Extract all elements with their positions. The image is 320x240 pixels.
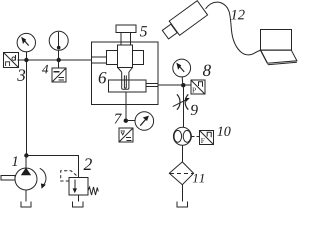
node junction 8: [181, 83, 185, 87]
thermometer (for 4): [49, 31, 68, 68]
laptop: [261, 30, 297, 65]
label 11: [193, 174, 204, 183]
filter 11 diamond: [169, 162, 193, 185]
label 7: [115, 114, 122, 124]
pressure gauge (for 3): [17, 33, 35, 60]
pump 1: [1, 168, 46, 190]
wire down through throttle: [182, 85, 184, 127]
sensor T4 square: [52, 68, 66, 82]
wire pump outlet: [25, 156, 27, 169]
label 12: [231, 10, 245, 20]
relief valve 2 body: [69, 177, 88, 195]
needle inside nozzle: [124, 75, 126, 88]
label 8: [203, 65, 211, 76]
wire internal double line left: [91, 56, 106, 58]
label 9: [191, 105, 198, 115]
tank (right): [177, 202, 187, 207]
node junction 7: [124, 119, 128, 123]
sensor F10 square: [200, 131, 214, 145]
left block: [107, 50, 118, 64]
cable: [206, 2, 261, 55]
label 6: [99, 72, 107, 83]
tank (pump): [21, 201, 31, 206]
adjusting knob 5: [116, 25, 136, 45]
sensor P3 square: [4, 53, 27, 68]
flow meter (for 10): [173, 127, 191, 145]
pressure gauge (at 8): [173, 59, 191, 85]
nozzle: [122, 72, 129, 89]
wire to relief valve: [26, 156, 78, 178]
label 5: [140, 26, 147, 36]
wire pump to tank: [25, 190, 27, 201]
sensor P8 square: [191, 80, 205, 94]
spring of valve 2: [88, 187, 98, 195]
wire filter to tank: [181, 185, 183, 202]
camera 12: [160, 1, 207, 42]
wire left vertical to pump: [25, 60, 27, 156]
pilot dashed line: [61, 171, 78, 181]
funnel: [118, 68, 122, 73]
wire main horizontal line: [18, 59, 92, 61]
wire down from valve: [125, 92, 127, 121]
right block: [133, 50, 144, 64]
label 1: [12, 156, 17, 166]
test chamber box: [91, 42, 158, 105]
wire internal double line right: [146, 83, 158, 85]
valve body 6 central: [107, 45, 144, 89]
label 10: [217, 127, 230, 136]
label 3: [17, 69, 25, 80]
node junction J2: [57, 58, 61, 62]
wire to filter: [181, 145, 183, 162]
wire dashed to sensor 10: [191, 136, 199, 138]
wire valve 2 to tank: [77, 195, 79, 202]
throttle valve 9: [173, 94, 190, 109]
wire right from box to sensor 8: [158, 84, 191, 86]
node junction pump outlet: [24, 153, 28, 157]
lower block 6: [109, 80, 146, 92]
label 4: [42, 65, 48, 74]
label 2: [84, 158, 92, 170]
tank (valve 2): [73, 202, 83, 207]
pressure gauge (at 7): [126, 112, 154, 131]
sensor P7 square: [119, 128, 133, 142]
node junction J1: [24, 58, 28, 62]
